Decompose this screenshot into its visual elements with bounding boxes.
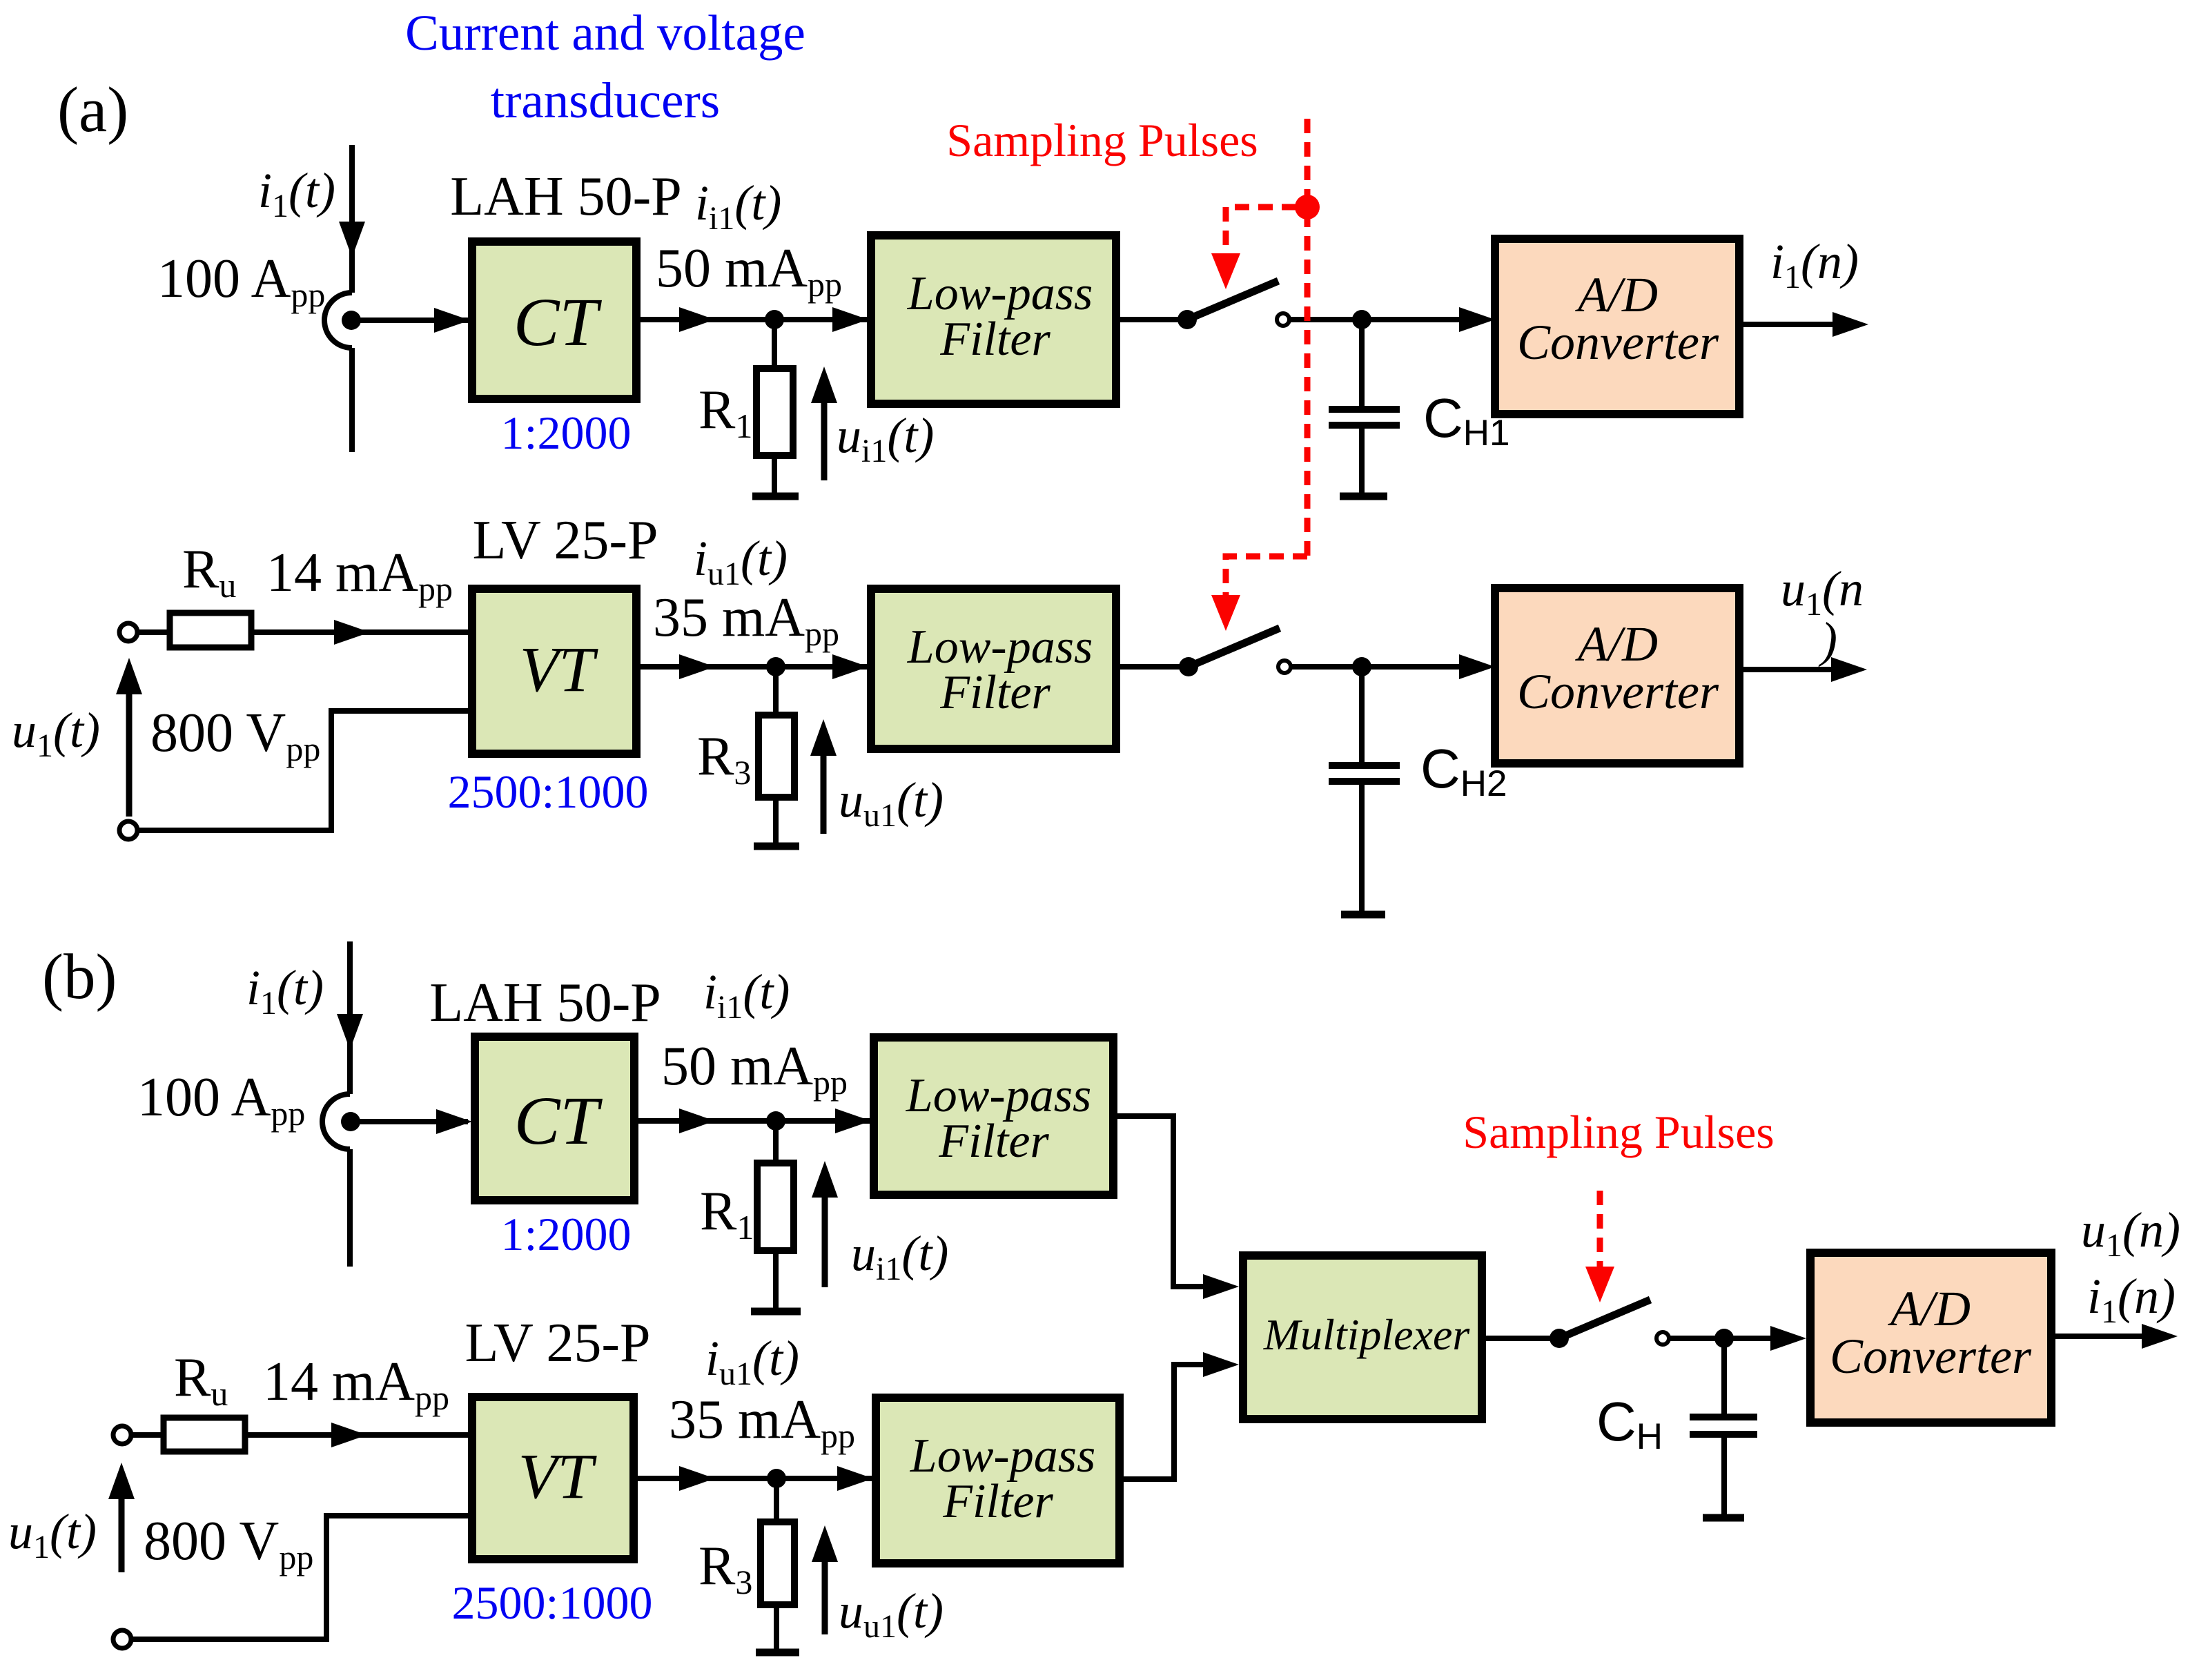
- resistor R3 (b): [761, 1522, 794, 1605]
- wire junction to R1 (a): [772, 320, 777, 369]
- arrow: i1 current direction down (a): [339, 222, 365, 257]
- svg-text:u1(n): u1(n): [2081, 1202, 2180, 1264]
- resistor R1 (b): [757, 1163, 794, 1251]
- arrow into AD (b): [1770, 1326, 1806, 1351]
- wire: transducer aperture hook (b): [322, 1094, 350, 1149]
- svg-text:Converter: Converter: [1517, 315, 1719, 370]
- svg-text:CT: CT: [514, 284, 603, 360]
- arrow into AD1 (a): [1459, 307, 1495, 332]
- node R3 junction (a): [766, 657, 785, 676]
- wire LPF2 to switch (a): [1116, 664, 1184, 670]
- arrow into LPF2 (a): [832, 654, 868, 679]
- terminal u1 bottom (a): [119, 821, 137, 839]
- svg-text:LV 25-P: LV 25-P: [465, 1313, 651, 1374]
- wire Ru to VT (b): [245, 1432, 468, 1438]
- node CH1 (a): [1352, 310, 1371, 329]
- wire: i1 input vertical top (b): [347, 941, 353, 1094]
- wire AD1 output (a): [1739, 322, 1835, 327]
- terminal u1 bottom (b): [113, 1630, 131, 1648]
- ground CH (b): [1703, 1514, 1744, 1522]
- wire R3 to ground (b): [774, 1605, 779, 1651]
- arrow sampling S1 (a): [1211, 253, 1240, 289]
- wire mux to switch (b): [1482, 1336, 1553, 1341]
- switch S2 lever (a): [1189, 628, 1280, 667]
- ground CH1 (a): [1340, 493, 1387, 500]
- switch S1 pivot (a): [1177, 310, 1197, 329]
- wire node to AD (b): [1724, 1336, 1775, 1341]
- svg-text:1:2000: 1:2000: [501, 1208, 632, 1260]
- wire bottom terminal to VT (a): [137, 711, 468, 830]
- svg-text:Sampling Pulses: Sampling Pulses: [1463, 1106, 1775, 1158]
- node: R1 junction (a): [765, 310, 784, 329]
- sampling dashed line (b): [1597, 1191, 1603, 1267]
- ground R3 (a): [754, 843, 799, 850]
- svg-text:2500:1000: 2500:1000: [452, 1576, 653, 1629]
- switch S1 lever (a): [1187, 281, 1278, 320]
- arrow into VT (a): [334, 620, 370, 645]
- svg-text:A/D: A/D: [1575, 616, 1658, 672]
- wire switch to CH2 node (a): [1291, 664, 1362, 670]
- wire R1 to ground (a): [772, 456, 777, 495]
- svg-text:2500:1000: 2500:1000: [448, 765, 649, 818]
- arrow into CT (b): [436, 1109, 472, 1134]
- resistor R1 (a): [756, 369, 793, 456]
- wire: i1 input vertical bottom (b): [347, 1149, 353, 1267]
- ground R3 (b): [756, 1649, 799, 1657]
- block A/D converter 1 (a): [1495, 239, 1739, 414]
- arrow u1 voltage (a): [126, 692, 133, 817]
- block multiplexer (b): [1243, 1256, 1482, 1419]
- wire switch to CH1 node (a): [1289, 317, 1362, 322]
- arrow AD1 output (a): [1832, 312, 1868, 337]
- svg-text:ii1(t): ii1(t): [703, 964, 790, 1026]
- switch S2 pivot (a): [1179, 657, 1198, 676]
- terminal u1 top (a): [119, 623, 137, 641]
- node: R1 junction (b): [766, 1111, 785, 1131]
- switch S lever (b): [1559, 1300, 1650, 1338]
- svg-text:): ): [1818, 612, 1837, 667]
- sampling node (a): [1295, 195, 1320, 219]
- svg-text:VT: VT: [518, 1441, 598, 1512]
- arrow sampling S2 (a): [1211, 595, 1240, 631]
- arrow mid CT-R1 (a): [679, 307, 715, 332]
- arrow into VT (b): [331, 1423, 367, 1447]
- node CH (b): [1714, 1329, 1734, 1348]
- wire R1 to ground (b): [773, 1251, 779, 1310]
- arrow mid CT-R1 (b): [679, 1108, 715, 1133]
- svg-text:A/D: A/D: [1575, 267, 1658, 322]
- node: CT input tap (a): [342, 311, 361, 330]
- switch S2 contact (a): [1278, 661, 1291, 673]
- wire: tap to CT (a): [351, 318, 468, 323]
- svg-text:Multiplexer: Multiplexer: [1263, 1310, 1471, 1359]
- arrow uu1 voltage (b): [822, 1561, 828, 1634]
- transducer VT (b): [472, 1397, 634, 1559]
- capacitor CH1 (a): [1359, 320, 1365, 407]
- resistor R3 (a): [759, 715, 794, 797]
- wire Ru to VT (a): [251, 629, 468, 635]
- svg-text:i1(t): i1(t): [258, 163, 335, 224]
- arrow into LPF1 (b): [835, 1108, 871, 1133]
- wire: CT output (b): [634, 1118, 874, 1124]
- arrow into mux input 1 (b): [1203, 1274, 1239, 1299]
- ground CH2 (a): [1341, 911, 1385, 919]
- sampling branch row1 (a): [1226, 207, 1296, 253]
- arrow mid VT-R3 (b): [679, 1466, 715, 1491]
- svg-text:Filter: Filter: [939, 313, 1050, 366]
- arrow ui1 voltage (a): [821, 400, 828, 480]
- block A/D converter (b): [1810, 1253, 2051, 1423]
- svg-text:i1(n): i1(n): [2087, 1269, 2176, 1330]
- wire LPF1 to switch (a): [1116, 317, 1182, 322]
- wire AD2 output (a): [1739, 667, 1833, 672]
- wire: CT output (a): [636, 317, 871, 322]
- wire LPF1 to mux (b): [1113, 1116, 1206, 1287]
- arrow: i1 current direction down (b): [337, 1014, 363, 1050]
- sampling branch row2 (a): [1226, 556, 1307, 595]
- capacitor CH2 (a): [1359, 667, 1365, 763]
- wire: transducer aperture hook (a): [324, 293, 352, 348]
- wire: i1 input vertical bottom (a): [349, 348, 355, 452]
- wire VT output (a): [636, 664, 871, 670]
- sampling line main vertical (a): [1304, 119, 1311, 556]
- wire R3 to ground (a): [773, 797, 779, 845]
- arrow AD2 output (a): [1831, 657, 1867, 682]
- svg-text:Sampling Pulses: Sampling Pulses: [946, 114, 1258, 166]
- arrow into AD2 (a): [1459, 654, 1495, 679]
- resistor Ru (b): [164, 1418, 245, 1452]
- transducer CT (a): [472, 242, 636, 399]
- svg-text:u1(t): u1(t): [12, 703, 100, 764]
- node R3 junction (b): [767, 1469, 786, 1488]
- node: CT input tap (b): [341, 1112, 360, 1131]
- block low-pass filter 1 (b): [874, 1037, 1113, 1195]
- wire bottom terminal to VT (b): [130, 1516, 468, 1639]
- arrow into LPF2 (b): [837, 1466, 873, 1491]
- capacitor CH (b): [1721, 1338, 1727, 1414]
- svg-text:ii1(t): ii1(t): [695, 175, 781, 237]
- transducer VT (a): [472, 589, 636, 754]
- wire node to AD1 (a): [1362, 317, 1462, 322]
- wire junction to R3 (b): [774, 1478, 779, 1522]
- wire: tap to CT (b): [351, 1119, 468, 1124]
- node CH2 (a): [1352, 657, 1371, 676]
- wire LPF2 to mux (b): [1120, 1365, 1206, 1479]
- arrow mid VT-R3 (a): [679, 654, 715, 679]
- svg-text:Filter: Filter: [939, 666, 1050, 719]
- ground R1 (b): [751, 1308, 801, 1316]
- svg-text:Current and voltage: Current and voltage: [405, 5, 805, 61]
- arrow into CT (a): [434, 308, 470, 333]
- svg-text:Converter: Converter: [1830, 1329, 2032, 1384]
- terminal u1 top (b): [113, 1426, 131, 1444]
- arrow AD output (b): [2142, 1324, 2178, 1349]
- wire AD output (b): [2051, 1334, 2143, 1339]
- svg-text:LAH 50-P: LAH 50-P: [429, 973, 661, 1033]
- wire terminal to Ru (a): [137, 629, 170, 635]
- svg-text:A/D: A/D: [1888, 1281, 1971, 1336]
- ground R1 (a): [752, 493, 799, 500]
- wire VT output (b): [634, 1476, 876, 1481]
- block low-pass filter 2 (a): [871, 589, 1116, 749]
- svg-text:LV 25-P: LV 25-P: [473, 510, 658, 571]
- arrow u1 voltage (b): [119, 1498, 125, 1572]
- svg-text:VT: VT: [520, 634, 599, 705]
- svg-text:i1(n): i1(n): [1770, 234, 1859, 295]
- svg-text:1:2000: 1:2000: [501, 407, 632, 459]
- svg-text:LAH 50-P: LAH 50-P: [450, 166, 682, 227]
- wire: i1 input vertical top (a): [349, 145, 355, 293]
- switch S1 contact (a): [1277, 313, 1289, 326]
- svg-text:CT: CT: [514, 1082, 603, 1159]
- svg-text:Filter: Filter: [942, 1475, 1053, 1528]
- block low-pass filter 2 (b): [876, 1398, 1120, 1563]
- wire junction to R1 (b): [773, 1121, 779, 1163]
- block A/D converter 2 (a): [1495, 588, 1739, 763]
- arrow uu1 voltage (a): [821, 755, 827, 834]
- svg-text:i1(t): i1(t): [246, 960, 324, 1022]
- svg-text:u1(t): u1(t): [8, 1504, 97, 1565]
- svg-text:Filter: Filter: [938, 1115, 1049, 1168]
- wire node to AD2 (a): [1362, 664, 1462, 670]
- switch S pivot (b): [1550, 1329, 1569, 1348]
- svg-text:Converter: Converter: [1517, 664, 1719, 719]
- block low-pass filter 1 (a): [871, 235, 1116, 404]
- svg-text:(a): (a): [57, 75, 128, 146]
- svg-text:(b): (b): [42, 941, 117, 1013]
- wire switch to CH node (b): [1669, 1336, 1724, 1341]
- transducer CT (b): [475, 1037, 634, 1200]
- wire junction to R3 (a): [773, 667, 779, 715]
- arrow ui1 voltage (b): [822, 1198, 828, 1287]
- resistor Ru (a): [170, 613, 251, 647]
- arrow into LPF1 (a): [832, 307, 868, 332]
- arrow into mux input 2 (b): [1203, 1352, 1239, 1377]
- switch S contact (b): [1656, 1332, 1669, 1345]
- wire terminal to Ru (b): [131, 1432, 164, 1438]
- arrow sampling switch (b): [1585, 1267, 1614, 1302]
- svg-text:transducers: transducers: [491, 72, 720, 128]
